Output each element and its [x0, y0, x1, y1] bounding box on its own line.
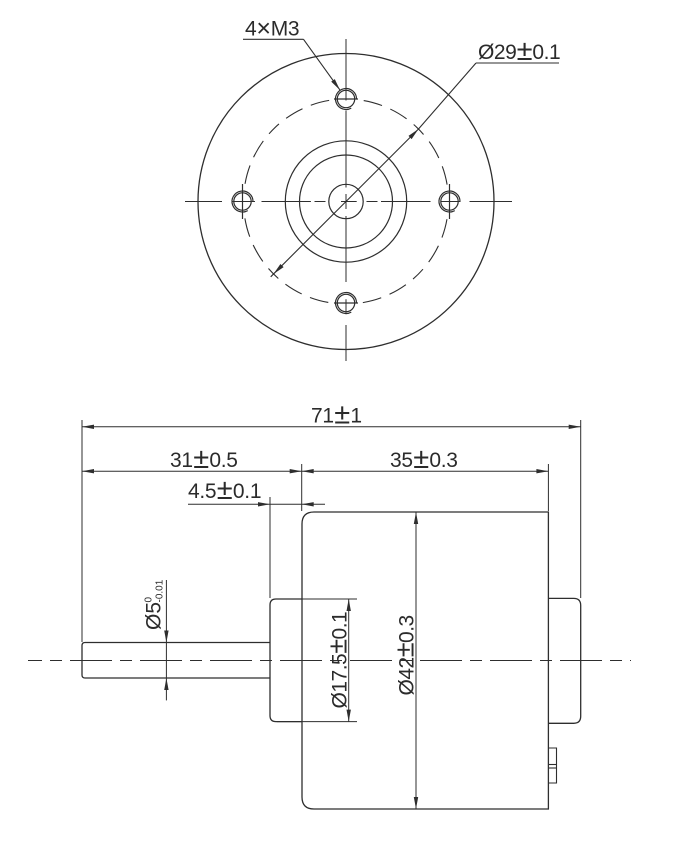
terminal tab: [548, 748, 556, 783]
svg-text:0: 0: [144, 597, 155, 603]
extension line body rear x=548.4: [547, 464, 549, 511]
extension line housing rear x=580.7: [580, 420, 582, 598]
leader arrow: [331, 79, 340, 90]
arrow upper-right (tip on bolt circle): [409, 129, 419, 139]
dim Ø42±0.3 vertical: [415, 512, 417, 809]
label Ø5 with tolerance (rotated): [143, 579, 166, 630]
horizontal centerline: [185, 201, 512, 203]
dimension Ø29 diagonal: [271, 63, 559, 277]
shaft circle Ø5: [329, 184, 363, 218]
rear housing: [548, 598, 580, 723]
dim 31±0.5 / 35±0.3: [82, 470, 548, 472]
bolt circle Ø29 (dashed): [244, 99, 449, 304]
boss circle Ø17.5: [285, 141, 406, 262]
dim 71±1: [82, 426, 581, 428]
flange outer circle Ø42: [198, 54, 494, 350]
extension line shaft end x=82: [81, 420, 83, 642]
hole right: [439, 184, 461, 219]
svg-text:4×M3: 4×M3: [245, 15, 299, 43]
bearing circle: [300, 155, 393, 248]
arrow lower-left (tip on bolt circle): [274, 264, 284, 274]
extension line body front x=301.7: [301, 464, 303, 511]
motor body outline: [302, 512, 548, 809]
hole top (M3 thread: outer arc with gap, inner circle): [334, 88, 358, 109]
vertical centerline: [345, 39, 347, 361]
hole left: [232, 184, 255, 219]
leader 4xM3: [243, 39, 340, 90]
dim Ø5 vertical: [165, 580, 167, 700]
dim 4.5±0.1: [188, 503, 325, 505]
hole bottom: [334, 292, 358, 313]
extension line boss top: [277, 598, 357, 600]
svg-text:Ø5: Ø5: [143, 602, 166, 630]
dim Ø17.5±0.1 vertical: [348, 599, 350, 722]
svg-text:-0.01: -0.01: [155, 579, 166, 602]
side view centerline: [28, 660, 631, 662]
extension line boss bottom: [277, 721, 357, 723]
shaft Ø5: [82, 643, 270, 679]
extension line boss front x=270: [269, 497, 271, 598]
front boss Ø17.5: [270, 599, 302, 722]
